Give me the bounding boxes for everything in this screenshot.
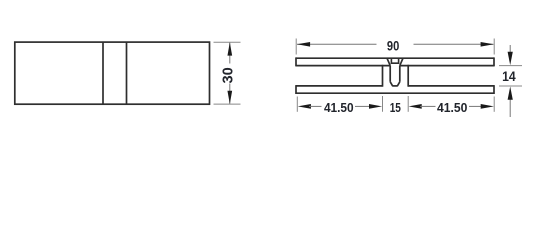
front view outline (left rectangle) xyxy=(15,42,210,104)
screw head cone left xyxy=(387,58,390,65)
bottom dims: post right extension line xyxy=(407,96,409,112)
dimension 90: dim line left segment xyxy=(297,43,377,45)
top plate: right end xyxy=(493,57,495,66)
screw head cone right xyxy=(400,58,403,65)
dimension 14: bottom extension line xyxy=(499,85,522,87)
center post right edge xyxy=(407,65,409,87)
dimension 90: left extension line xyxy=(295,39,297,55)
top plate: bottom edge right segment xyxy=(400,65,494,67)
dimension 14: down arrowhead xyxy=(508,52,513,65)
dimension 41.50 right: left arrowhead xyxy=(409,104,422,109)
dimension 41.50 right: line from text xyxy=(469,105,485,107)
bottom plate: left end xyxy=(295,85,297,94)
dimension 14: lower tail xyxy=(509,99,511,118)
top plate: top edge xyxy=(296,57,494,59)
dimension 90: dim line right segment xyxy=(414,43,494,45)
dimension 41.50 left: right arrowhead xyxy=(369,104,382,109)
screw shaft left edge xyxy=(389,66,391,82)
dimension 90: right extension line xyxy=(493,39,495,55)
top plate: left end xyxy=(295,57,297,66)
dimension 30: top extension line xyxy=(214,41,241,43)
dimension 41.50 right: line to text xyxy=(420,105,436,107)
dimension 14: top extension line xyxy=(499,65,522,67)
screw slot xyxy=(391,58,398,63)
svg-text:90: 90 xyxy=(387,37,400,53)
bottom plate: top edge left segment xyxy=(296,85,383,87)
svg-text:41.50: 41.50 xyxy=(324,101,354,115)
dimension 14: up arrowhead xyxy=(508,87,513,100)
dimension 90: right arrowhead xyxy=(481,42,494,47)
dimension 41.50 left: left arrowhead xyxy=(298,104,311,109)
svg-text:15: 15 xyxy=(390,101,401,115)
screw tip chamfer left xyxy=(390,82,392,86)
screw tip flat xyxy=(392,85,398,87)
dimension 30: bottom extension line xyxy=(214,103,241,105)
front view center strip line left xyxy=(102,42,104,104)
top plate: bottom edge left segment xyxy=(296,65,390,67)
bottom dims: post left extension line xyxy=(382,96,384,112)
dimension 14: upper tail xyxy=(509,45,511,54)
bottom plate: bottom edge xyxy=(296,92,494,94)
bottom plate: right end xyxy=(493,85,495,94)
center post left edge xyxy=(382,65,384,87)
dimension 41.50 left: line from text xyxy=(355,105,371,107)
dimension 30: up arrowhead xyxy=(227,42,232,55)
dimension 90: left arrowhead xyxy=(297,42,310,47)
bottom dims: far right extension line xyxy=(493,97,495,112)
bottom dims: far left extension line xyxy=(296,97,298,112)
bottom plate: top edge right segment xyxy=(408,85,494,87)
svg-text:30: 30 xyxy=(221,67,237,83)
dimension 30: dim line lower segment xyxy=(229,84,231,104)
dimension 41.50 left: line to text xyxy=(309,105,322,107)
dimension 30: dim line upper segment xyxy=(229,43,231,64)
screw tip chamfer right xyxy=(397,82,399,86)
svg-text:41.50: 41.50 xyxy=(437,101,467,115)
front view center strip line right xyxy=(126,42,128,104)
svg-text:14: 14 xyxy=(502,68,516,84)
dimension 41.50 right: right arrowhead xyxy=(481,104,494,109)
screw shaft right edge xyxy=(399,66,401,82)
dimension 30: down arrowhead xyxy=(227,91,232,104)
